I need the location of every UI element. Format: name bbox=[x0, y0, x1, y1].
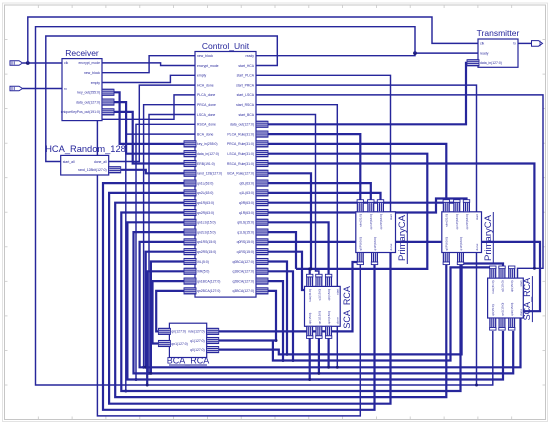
svg-text:PrimaryCA: PrimaryCA bbox=[483, 214, 494, 261]
svg-text:LSCA_done: LSCA_done bbox=[197, 113, 215, 117]
junction RSCA_Rule join bbox=[533, 267, 536, 270]
junction RSCA_done bbox=[135, 378, 138, 381]
svg-text:data_out(127:0): data_out(127:0) bbox=[76, 100, 100, 104]
bus q2BCA down join bbox=[267, 281, 283, 360]
svg-text:RSCA_done: RSCA_done bbox=[197, 123, 216, 127]
bus stub PrimaryCA2 rule bbox=[443, 200, 449, 212]
bus Receiver data_out to Control data_in bbox=[113, 102, 184, 154]
input pin clk bbox=[10, 61, 23, 66]
bus PRCA_Rule to PrimaryCA2 rule bbox=[267, 144, 446, 204]
svg-text:qn1RS(15:0): qn1RS(15:0) bbox=[197, 240, 216, 244]
wire rx pin to Receiver rx bbox=[23, 88, 63, 90]
junction XiL bbox=[149, 372, 152, 375]
svg-text:q0(15:0): q0(15:0) bbox=[491, 304, 495, 316]
svg-text:Transmitter: Transmitter bbox=[477, 28, 520, 38]
wire clk pin to Receiver clk bbox=[23, 62, 63, 64]
input pin rx bbox=[10, 86, 23, 91]
bus stub Control right q1L(63:0) bbox=[256, 190, 268, 196]
bus qn1RS route to SCA_RCA2 done bbox=[140, 242, 521, 367]
bus SCA_RCA1 out2 down bbox=[318, 336, 320, 374]
bus stub Control right LSCA_Rule(31:0) bbox=[256, 151, 268, 157]
bus qn1BCA to BCA_RCA qn1 bbox=[153, 281, 196, 343]
wire ready feedback long loop to SCA_RCA2 bbox=[36, 27, 493, 385]
bus q0BCA down join bbox=[267, 262, 287, 355]
bus stub PrimaryCA1 q0P bbox=[357, 253, 363, 265]
svg-text:q1(127:0): q1(127:0) bbox=[190, 339, 205, 343]
wire BCA_done route down bbox=[126, 134, 195, 391]
block Control_Unit bbox=[195, 52, 256, 298]
svg-text:q0P(63:0): q0P(63:0) bbox=[445, 237, 449, 251]
bus stub Control left key_in(255:0) bbox=[184, 141, 196, 147]
svg-text:q1RS(15:0): q1RS(15:0) bbox=[237, 250, 254, 254]
block SCA_RCA1 bbox=[305, 286, 341, 326]
svg-text:q1(15:0): q1(15:0) bbox=[317, 289, 321, 301]
svg-text:empty: empty bbox=[91, 81, 101, 85]
wire RSCA_done route down bbox=[136, 124, 195, 379]
junction LSCA_Rule branch bbox=[308, 267, 311, 270]
output pin tx bbox=[532, 41, 543, 47]
svg-text:start_BCA: start_BCA bbox=[239, 113, 255, 117]
bus stub Control left XiL(5:0) bbox=[184, 258, 196, 264]
junction BCA rule join bbox=[359, 261, 362, 264]
svg-text:q1L(63:0): q1L(63:0) bbox=[239, 191, 254, 195]
bus data_out to Transmitter data_in bbox=[267, 63, 467, 125]
svg-text:q2BCA(127:0): q2BCA(127:0) bbox=[233, 279, 255, 283]
bus XiL route down bbox=[151, 262, 195, 374]
bus stub SCA_RCA2 out2 bbox=[499, 318, 505, 330]
bus qn2R route to PrimaryCA2 q1P bbox=[121, 213, 460, 392]
svg-text:q0RS(15:0): q0RS(15:0) bbox=[237, 240, 254, 244]
svg-text:encrypt_mode: encrypt_mode bbox=[79, 61, 101, 65]
bus stub Receiver data_out bbox=[102, 99, 114, 105]
bus stub Control right q0RS(15:0) bbox=[256, 239, 268, 245]
svg-text:uniqueKeyPos_out(191:0): uniqueKeyPos_out(191:0) bbox=[61, 110, 100, 114]
bus stub Control right data_out(127:0) bbox=[256, 121, 268, 127]
svg-text:qn1L(63:0): qn1L(63:0) bbox=[197, 181, 213, 185]
junction SCA1 o3 bbox=[327, 366, 330, 369]
bus stub PrimaryCA1 rule bbox=[357, 200, 363, 212]
bus stub SCA_RCA1 out3 bbox=[325, 326, 331, 338]
bus q0RS right tall route bbox=[267, 242, 540, 311]
bus stub BCA q1 bbox=[207, 337, 219, 343]
bus q1BCA down join bbox=[267, 271, 293, 360]
junction BCA_done bbox=[124, 390, 127, 393]
bus stub BCA qn bbox=[158, 328, 170, 334]
svg-text:q3BCA(127:0): q3BCA(127:0) bbox=[233, 289, 255, 293]
svg-text:rule(31:0): rule(31:0) bbox=[491, 281, 495, 294]
bus stub Control left XiR(5:0) bbox=[184, 268, 196, 274]
wire HCA done_all to Control HCA_done bbox=[109, 85, 195, 161]
svg-text:start_all: start_all bbox=[63, 160, 75, 164]
bus stub Control left qn2BCA(127:0) bbox=[184, 288, 196, 294]
bus stub Control right q0LS(15:0) bbox=[256, 219, 268, 225]
svg-text:PLCA_done: PLCA_done bbox=[197, 93, 215, 97]
svg-text:clk: clk bbox=[480, 42, 484, 46]
bus stub SCA_RCA1 out2 bbox=[316, 326, 322, 338]
PrimaryCA2 port labels bbox=[445, 214, 479, 251]
svg-text:ready: ready bbox=[480, 51, 489, 55]
svg-text:qn2LS(15:0): qn2LS(15:0) bbox=[197, 230, 216, 234]
SCA_RCA1 port labels bbox=[308, 289, 340, 325]
svg-text:rand_128(127:0): rand_128(127:0) bbox=[197, 172, 222, 176]
wire SCA_RCA1 done down bbox=[336, 326, 338, 367]
wire PrimaryCA2 done down bbox=[476, 253, 478, 386]
bus stub Control right RSCA_Rule(31:0) bbox=[256, 160, 268, 166]
bus SCA_RCA1 out3 down bbox=[328, 336, 330, 368]
bus stub Control right q1LS(15:0) bbox=[256, 229, 268, 235]
svg-text:q1P(63:0): q1P(63:0) bbox=[459, 237, 463, 251]
bus stub PrimaryCA2 q1P bbox=[457, 253, 463, 265]
svg-text:start_PRCA: start_PRCA bbox=[236, 83, 255, 87]
junction SCA1 o2 bbox=[317, 372, 320, 375]
svg-text:data_out(127:0): data_out(127:0) bbox=[230, 123, 254, 127]
svg-text:BCA_Rule(127:0): BCA_Rule(127:0) bbox=[227, 172, 254, 176]
bus stub Control left qn2L(63:0) bbox=[184, 190, 196, 196]
bus stub PrimaryCA2 qn2P bbox=[463, 200, 469, 212]
bus qn1R route to PrimaryCA2 q0P bbox=[115, 203, 446, 397]
svg-text:rule(31:0): rule(31:0) bbox=[308, 289, 312, 302]
bus qn1L route to PrimaryCA1 q1P bbox=[103, 183, 375, 410]
junction P2 done bbox=[475, 384, 478, 387]
svg-text:done: done bbox=[475, 243, 479, 250]
bus stub BCA qn1 bbox=[158, 340, 170, 346]
svg-text:q1BCA(127:0): q1BCA(127:0) bbox=[233, 270, 255, 274]
svg-text:q0(127:0): q0(127:0) bbox=[190, 348, 205, 352]
bus stub PrimaryCA2 qn1P bbox=[454, 200, 460, 212]
svg-text:ERB(191:0): ERB(191:0) bbox=[197, 162, 215, 166]
bus stub Control right PRCA_Rule(31:0) bbox=[256, 141, 268, 147]
bus q1R to PrimaryCA2 bbox=[267, 199, 467, 213]
bus q0L to PrimaryCA1 bbox=[267, 183, 371, 204]
bus stub Control left qn1BCA(127:0) bbox=[184, 278, 196, 284]
bus stub Control left qn1RS(15:0) bbox=[184, 239, 196, 245]
junction q2BCA bbox=[282, 359, 285, 362]
svg-text:start: start bbox=[389, 214, 393, 220]
junction clk bbox=[26, 61, 30, 65]
svg-text:q0(15:0): q0(15:0) bbox=[308, 313, 312, 325]
svg-text:new_block: new_block bbox=[197, 54, 213, 58]
bus stub Control right q2BCA(127:0) bbox=[256, 278, 268, 284]
wire start_HCA to HCA_Random start_all bbox=[46, 36, 277, 162]
svg-text:done: done bbox=[389, 243, 393, 250]
svg-text:q1LS(15:0): q1LS(15:0) bbox=[237, 230, 254, 234]
svg-text:data_in(127:0): data_in(127:0) bbox=[197, 152, 219, 156]
svg-text:q1(15:0): q1(15:0) bbox=[500, 281, 504, 293]
bus stub Transmitter data_in bbox=[467, 60, 479, 66]
bus LSCA_Rule to SCA_RCA1 rule bbox=[267, 154, 427, 269]
bus stub PrimaryCA1 q1P bbox=[371, 253, 377, 265]
bus stub SCA_RCA2 in1 bbox=[490, 266, 496, 278]
svg-text:q0P(63:0): q0P(63:0) bbox=[359, 237, 363, 251]
svg-text:qn2L(63:0): qn2L(63:0) bbox=[197, 191, 213, 195]
wire start_PRCA to PrimaryCA2 start bbox=[256, 85, 477, 212]
bus stub BCA q0 bbox=[207, 347, 219, 353]
wire Receiver encrypt_mode to Control bbox=[102, 63, 195, 66]
bus stub PrimaryCA2 q0P bbox=[443, 253, 449, 265]
svg-text:rx: rx bbox=[64, 87, 67, 91]
bus stub PrimaryCA1 qn1P bbox=[368, 200, 374, 212]
svg-text:PrimaryCA: PrimaryCA bbox=[397, 214, 408, 261]
junction BCA_Rule join bbox=[310, 267, 313, 270]
svg-text:q0L(63:0): q0L(63:0) bbox=[239, 181, 254, 185]
block BCA_RCA bbox=[169, 323, 206, 357]
bus stub SCA_RCA1 in2 bbox=[316, 274, 322, 286]
wire Receiver empty to Control bbox=[102, 75, 195, 82]
svg-text:start: start bbox=[475, 214, 479, 220]
bus stub Control left qn1LS(15:0) bbox=[184, 219, 196, 225]
bus Receiver uniqueKeyPos_out to Control ERB bbox=[113, 112, 184, 164]
svg-text:key_in(255:0): key_in(255:0) bbox=[197, 142, 218, 146]
svg-text:qn1(127:0): qn1(127:0) bbox=[171, 342, 187, 346]
svg-text:qn1(15:0): qn1(15:0) bbox=[317, 311, 321, 324]
bus stub SCA_RCA2 out1 bbox=[490, 318, 496, 330]
svg-text:qn2RS(15:0): qn2RS(15:0) bbox=[197, 250, 216, 254]
svg-text:XiR(5:0): XiR(5:0) bbox=[197, 270, 209, 274]
bus q0LS to SCA_RCA1 stub3 bbox=[267, 222, 329, 277]
junction qn2RS bbox=[144, 366, 147, 369]
svg-text:rule(31:0): rule(31:0) bbox=[359, 214, 363, 227]
wire PRCA_done route down bbox=[144, 105, 195, 368]
bus stub Control right q0R(63:0) bbox=[256, 200, 268, 206]
svg-text:SCA_RCA: SCA_RCA bbox=[342, 286, 352, 329]
bus qn2L route to PrimaryCA1 done bbox=[109, 193, 390, 404]
wire start_LSCA to SCA_RCA2 start bbox=[256, 95, 543, 278]
wire LSCA_done route down bbox=[149, 115, 195, 374]
bus q1L to PrimaryCA1 bbox=[267, 193, 381, 204]
bus BCA_RCA rule row bbox=[218, 262, 360, 331]
svg-text:q0BCA(127:0): q0BCA(127:0) bbox=[233, 260, 255, 264]
junction PRCA_done bbox=[142, 366, 145, 369]
bus stub Control right BCA_Rule(127:0) bbox=[256, 170, 268, 176]
wire ready Control to Transmitter bbox=[256, 53, 478, 56]
svg-text:start_HCA: start_HCA bbox=[238, 64, 254, 68]
block PrimaryCA2 bbox=[442, 212, 482, 253]
bus stub Control left data_in(127:0) bbox=[184, 151, 196, 157]
bus BCA_Rule route bbox=[267, 173, 311, 269]
svg-text:q0R(63:0): q0R(63:0) bbox=[239, 201, 254, 205]
bus stub Control left qn2R(63:0) bbox=[184, 209, 196, 215]
svg-text:PRCA_Rule(31:0): PRCA_Rule(31:0) bbox=[227, 142, 254, 146]
svg-text:start: start bbox=[336, 289, 340, 295]
junction XiR bbox=[146, 384, 149, 387]
block PrimaryCA1 bbox=[356, 212, 396, 253]
bus SCA_RCA1 out1 down bbox=[309, 336, 311, 380]
svg-text:qn2P(63:0): qn2P(63:0) bbox=[379, 214, 383, 229]
svg-text:empty: empty bbox=[197, 74, 207, 78]
svg-text:PLCA_Rule(31:0): PLCA_Rule(31:0) bbox=[227, 132, 254, 136]
svg-text:BCA_RCA: BCA_RCA bbox=[167, 356, 210, 366]
svg-text:qn1P(63:0): qn1P(63:0) bbox=[369, 214, 373, 229]
bus stub Control right q0L(63:0) bbox=[256, 180, 268, 186]
bus stub Control right q1BCA(127:0) bbox=[256, 268, 268, 274]
svg-text:done_all: done_all bbox=[94, 160, 107, 164]
svg-text:qn0(15:0): qn0(15:0) bbox=[510, 303, 514, 316]
bus stub Control right PLCA_Rule(31:0) bbox=[256, 131, 268, 137]
svg-text:q0(15:0): q0(15:0) bbox=[510, 281, 514, 293]
svg-text:qn2P(63:0): qn2P(63:0) bbox=[465, 214, 469, 229]
bus stub Control right q0BCA(127:0) bbox=[256, 258, 268, 264]
svg-text:BCA_done: BCA_done bbox=[197, 132, 214, 136]
bus Receiver key_out to Control key_in bbox=[113, 92, 184, 144]
svg-text:q1P(63:0): q1P(63:0) bbox=[373, 237, 377, 251]
svg-text:HCA_Random_128: HCA_Random_128 bbox=[45, 144, 126, 154]
SCA_RCA2 port labels bbox=[491, 280, 523, 316]
bus stub Control left ERB(191:0) bbox=[184, 160, 196, 166]
svg-text:clk: clk bbox=[64, 61, 68, 65]
svg-text:key_out(255:0): key_out(255:0) bbox=[77, 91, 100, 95]
bus stub Control left qn1R(63:0) bbox=[184, 200, 196, 206]
svg-text:qn(127:0): qn(127:0) bbox=[171, 330, 186, 334]
svg-text:done: done bbox=[336, 317, 340, 324]
bus stub SCA_RCA1 in3 bbox=[325, 274, 331, 286]
bus RSCA_Rule to right edge bbox=[267, 164, 534, 269]
bus stub Control left qn2LS(15:0) bbox=[184, 229, 196, 235]
Receiver port labels bbox=[61, 61, 101, 114]
bus stub SCA_RCA2 in2 bbox=[499, 266, 505, 278]
svg-text:XiL(5:0): XiL(5:0) bbox=[197, 260, 209, 264]
wire PLCA_done route to PrimaryCA1 q0P bbox=[97, 95, 360, 416]
bus BCA_RCA q1 route to SCA_RCA2 bbox=[218, 267, 493, 360]
bus stub PrimaryCA1 qn2P bbox=[377, 200, 383, 212]
bus stub Control left qn1L(63:0) bbox=[184, 180, 196, 186]
junction SCA1 o1 bbox=[308, 378, 311, 381]
bus stub SCA_RCA1 out1 bbox=[307, 326, 313, 338]
svg-text:qn2R(63:0): qn2R(63:0) bbox=[197, 211, 214, 215]
junction q0BCA bbox=[286, 353, 289, 356]
bus qn2BCA to BCA_RCA qn bbox=[156, 291, 195, 332]
svg-text:qn2BCA(127:0): qn2BCA(127:0) bbox=[197, 289, 220, 293]
svg-text:qn1R(63:0): qn1R(63:0) bbox=[197, 201, 214, 205]
bus stub Receiver key_out bbox=[102, 89, 114, 95]
bus stub Control right q1R(63:0) bbox=[256, 209, 268, 215]
bus stub BCA rule bbox=[207, 328, 219, 334]
svg-text:qn1BCA(127:0): qn1BCA(127:0) bbox=[197, 279, 220, 283]
svg-text:tx: tx bbox=[513, 42, 516, 46]
junction q1BCA bbox=[292, 359, 295, 362]
bus q0R to PrimaryCA2 bbox=[267, 203, 457, 204]
wire clk net to Transmitter clk bbox=[28, 17, 478, 63]
svg-text:HCA_done: HCA_done bbox=[197, 83, 214, 87]
bus stub Control left rand_128(127:0) bbox=[184, 170, 196, 176]
bus qn1LS route to SCA_RCA2 bbox=[127, 222, 503, 379]
svg-text:SCA_RCA: SCA_RCA bbox=[522, 278, 532, 321]
svg-text:PRCA_done: PRCA_done bbox=[197, 103, 216, 107]
svg-text:qn1P(63:0): qn1P(63:0) bbox=[455, 214, 459, 229]
bus branch to SCA_RCA1 stub1 bbox=[309, 269, 311, 277]
block HCA_Random_128 bbox=[61, 155, 109, 175]
bus HCA rand_128bit to Control rand_128 bbox=[120, 170, 184, 174]
bus q1RS to SCA_RCA1 left bbox=[267, 252, 305, 290]
wire Receiver new_block to Control bbox=[102, 56, 195, 73]
bus XiR route down bbox=[147, 271, 195, 385]
svg-text:q0(15:0): q0(15:0) bbox=[327, 289, 331, 301]
svg-text:rule(31:0): rule(31:0) bbox=[445, 214, 449, 227]
junction q3BCA bbox=[275, 339, 278, 342]
svg-text:q1R(63:0): q1R(63:0) bbox=[239, 211, 254, 215]
svg-text:qn1(15:0): qn1(15:0) bbox=[500, 303, 504, 316]
svg-text:ready: ready bbox=[246, 54, 255, 58]
bus stub SCA_RCA2 out3 bbox=[509, 318, 515, 330]
bus PLCA_Rule to PrimaryCA1 rule bbox=[267, 134, 360, 204]
svg-text:new_block: new_block bbox=[84, 71, 100, 75]
junction LSCA_done bbox=[148, 372, 151, 375]
bus stub Control right q1RS(15:0) bbox=[256, 249, 268, 255]
bus q3BCA down join bbox=[267, 291, 276, 341]
bus stub SCA_RCA2 in3 bbox=[509, 266, 515, 278]
bus stub Receiver uniqueKeyPos_out bbox=[102, 109, 114, 115]
bus stub HCA rand_128bit bbox=[109, 167, 121, 173]
svg-text:qn0(15:0): qn0(15:0) bbox=[327, 311, 331, 324]
block Receiver bbox=[62, 59, 102, 121]
svg-text:data_in(127:0): data_in(127:0) bbox=[480, 61, 502, 65]
junction ready bbox=[413, 51, 417, 55]
wire Transmitter tx to output pin bbox=[518, 42, 532, 44]
svg-text:Control_Unit: Control_Unit bbox=[202, 41, 250, 51]
svg-text:rule(127:0): rule(127:0) bbox=[188, 330, 204, 334]
bus BCA_RCA q0 route to SCA_RCA2 bbox=[218, 264, 503, 355]
svg-text:RSCA_Rule(31:0): RSCA_Rule(31:0) bbox=[227, 162, 254, 166]
HCA port labels bbox=[63, 160, 107, 172]
bus stub Control left qn2RS(15:0) bbox=[184, 249, 196, 255]
svg-text:start_LSCA: start_LSCA bbox=[237, 93, 255, 97]
svg-text:start_PLCA: start_PLCA bbox=[237, 74, 255, 78]
bus qn2LS route to SCA_RCA2 bbox=[134, 232, 514, 373]
svg-text:q0LS(15:0): q0LS(15:0) bbox=[237, 221, 254, 225]
svg-text:qn1LS(15:0): qn1LS(15:0) bbox=[197, 221, 216, 225]
junction SCA1 done bbox=[336, 366, 339, 369]
bus q1LS join rule row bbox=[267, 232, 296, 269]
svg-text:encrypt_mode: encrypt_mode bbox=[197, 64, 219, 68]
bus stub SCA_RCA1 in1 bbox=[307, 274, 313, 286]
Control_Unit port labels bbox=[197, 54, 255, 293]
wire start_RSCA to SCA_RCA1 start bbox=[256, 105, 337, 287]
svg-text:rand_128bit(127:0): rand_128bit(127:0) bbox=[78, 168, 107, 172]
wire start_BCA route bbox=[256, 115, 319, 277]
Transmitter port labels bbox=[480, 42, 516, 65]
BCA_RCA port labels bbox=[171, 330, 204, 352]
svg-text:start_RSCA: start_RSCA bbox=[236, 103, 255, 107]
block Transmitter bbox=[478, 39, 518, 67]
bus qn2RS route down bbox=[146, 252, 195, 368]
bus stub Control right q3BCA(127:0) bbox=[256, 288, 268, 294]
svg-text:LSCA_Rule(31:0): LSCA_Rule(31:0) bbox=[227, 152, 254, 156]
block SCA_RCA2 bbox=[488, 278, 524, 318]
svg-text:Receiver: Receiver bbox=[65, 48, 99, 58]
wire start_PLCA to PrimaryCA1 start bbox=[256, 75, 391, 212]
PrimaryCA1 port labels bbox=[359, 214, 393, 251]
